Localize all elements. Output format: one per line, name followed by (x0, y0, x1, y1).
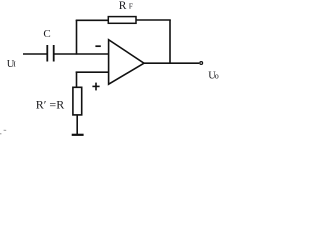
svg-text:R′ =R: R′ =R (36, 98, 64, 112)
wire resistor to ground (76, 115, 78, 134)
wire down to resistor R' (76, 72, 78, 88)
svg-text:o: o (215, 72, 219, 81)
op-amp U1 (109, 40, 144, 84)
svg-text:R: R (119, 0, 127, 12)
wire feedback down to output (169, 20, 171, 63)
terminal output (200, 62, 203, 65)
node A junction feedback/inverting (76, 20, 78, 55)
scan artifact marks (0, 130, 6, 134)
label UO (output voltage) (208, 71, 219, 82)
wire capacitor to inverting input (54, 53, 109, 55)
svg-text:I: I (13, 60, 16, 69)
wire non-inverting input (76, 71, 109, 73)
label RF (119, 0, 133, 12)
pin plus (non-inverting) (92, 83, 99, 91)
wire feedback top right (136, 19, 171, 21)
wire input to capacitor (23, 53, 47, 55)
wire feedback top left (76, 19, 109, 21)
svg-text:F: F (129, 2, 133, 11)
label UI (input voltage) (7, 59, 17, 70)
resistor RF (108, 17, 136, 24)
resistor R' (73, 87, 82, 115)
pin minus (inverting) (95, 45, 100, 47)
capacitor C (47, 45, 53, 62)
ground (72, 134, 84, 136)
svg-text:C: C (43, 28, 50, 40)
wire output (143, 62, 199, 64)
